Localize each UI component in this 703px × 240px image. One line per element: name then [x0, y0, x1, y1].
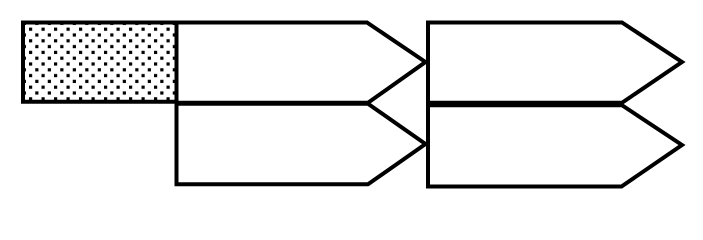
stippled rectangle: [23, 23, 177, 102]
arrow bottom-right: [428, 105, 682, 186]
arrow top-middle: [177, 23, 426, 103]
arrow top-right: [428, 23, 682, 103]
arrow bottom-middle: [177, 104, 426, 185]
